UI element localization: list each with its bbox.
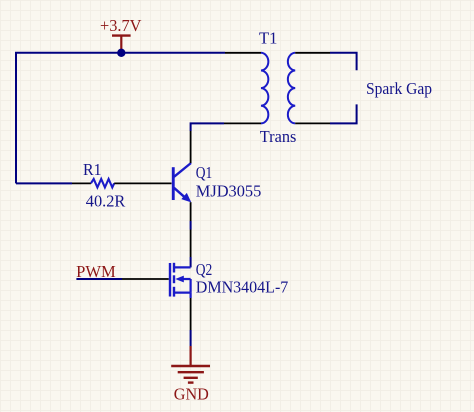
transformer T1 secondary winding (288, 53, 295, 124)
svg-text:Q2: Q2 (196, 260, 213, 279)
wire Q2 drain pin (190, 230, 192, 258)
wire Q2 gate pin (122, 278, 169, 280)
ground bar 2 (178, 371, 204, 373)
wire spark gap top (330, 53, 357, 71)
ground bar 1 (171, 365, 210, 367)
node junction dot (117, 49, 125, 57)
transistor Q2 gate bar (169, 263, 171, 297)
transistor Q2 (169, 260, 288, 298)
svg-text:Spark Gap: Spark Gap (366, 79, 432, 98)
svg-text:MJD3055: MJD3055 (196, 182, 261, 201)
pin R1.1 (72, 182, 91, 184)
transistor Q1 collector stroke (174, 163, 191, 177)
wire Q1 collector pin (190, 131, 192, 163)
wire emitter-drain blue segment (190, 221, 192, 230)
wire Q1 emitter pin (190, 202, 192, 221)
transistor Q2 body arrow (175, 276, 184, 283)
wire top rail (16, 53, 225, 184)
svg-text:DMN3404L-7: DMN3404L-7 (196, 278, 288, 297)
transistor Q2 body stub (180, 278, 191, 280)
wire secondary top pin (295, 52, 330, 54)
resistor R1 (72, 160, 172, 210)
wire transformer primary bottom pin (224, 122, 261, 124)
wire bottom-left to R1 (16, 182, 72, 184)
svg-text:+3.7V: +3.7V (100, 16, 142, 35)
wire spark gap bottom (330, 104, 357, 123)
transistor Q2 channel segments (173, 263, 175, 273)
transistor Q2 source lead (190, 293, 192, 298)
ground (171, 346, 210, 404)
svg-text:Q1: Q1 (196, 163, 213, 182)
ground bar 3 (184, 377, 198, 379)
wire source to ground (190, 330, 192, 346)
svg-text:T1: T1 (259, 29, 278, 48)
transistor Q2 drain stub (174, 266, 191, 268)
svg-text:GND: GND (174, 385, 209, 404)
transistor Q2 body-source tie (190, 279, 192, 293)
wire collector to transformer (191, 123, 224, 131)
wire Q2 source pin (190, 298, 192, 330)
power +3.7V bar (112, 34, 131, 36)
pin R1.2 to Q1 base (114, 182, 171, 184)
ground bar 4 (188, 381, 194, 383)
wire PWM to gate (76, 278, 122, 280)
power +3.7V (100, 16, 142, 51)
wire emitter to Q2 drain (190, 257, 192, 267)
svg-text:Trans: Trans (260, 127, 297, 146)
transistor Q1 emitter arrow (181, 193, 191, 203)
transistor Q2 source stub (174, 292, 191, 294)
ground stem (190, 346, 192, 366)
resistor R1 zigzag body (91, 179, 114, 187)
transformer T1 primary winding (261, 53, 268, 124)
transistor Q1 (172, 163, 261, 203)
wire secondary bottom pin (295, 122, 330, 124)
svg-text:R1: R1 (83, 160, 102, 179)
power +3.7V stem (120, 36, 122, 52)
svg-text:40.2R: 40.2R (86, 192, 126, 211)
transistor Q1 emitter stroke (174, 188, 187, 199)
wire transformer primary top pin (225, 52, 261, 54)
transistor Q1 base bar (172, 167, 175, 200)
